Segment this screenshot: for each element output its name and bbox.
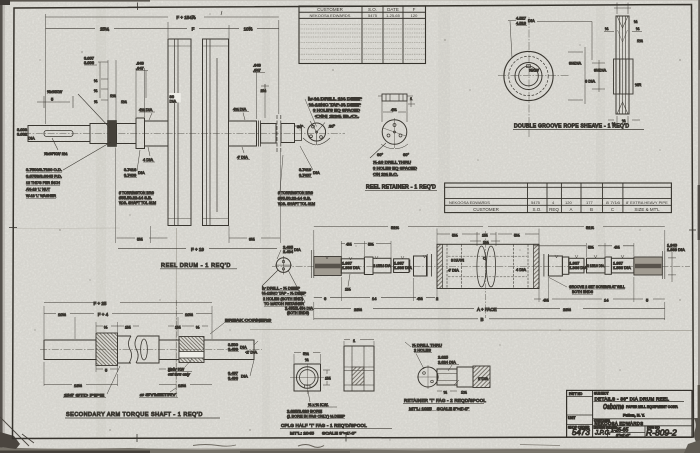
title block frame	[567, 390, 692, 437]
spool shaft centerline	[272, 266, 690, 268]
svg-text:1¼: 1¼	[483, 240, 489, 245]
svg-text:F: F	[413, 7, 416, 12]
svg-text:4⅜: 4⅜	[391, 107, 397, 112]
scan right edge	[698, 0, 700, 453]
svg-text:(BOTH ENDS): (BOTH ENDS)	[287, 310, 310, 315]
svg-text:3 HOLES EQ SPACED: 3 HOLES EQ SPACED	[373, 166, 417, 171]
svg-text:4½: 4½	[346, 241, 352, 246]
svg-text:DIA: DIA	[241, 374, 248, 379]
dim B row	[314, 318, 665, 320]
dim 1 1/2 right of square	[323, 370, 330, 385]
table column lines	[362, 6, 403, 64]
fold crease vertical	[175, 228, 177, 397]
dim 1 1/2 7/8 right	[168, 325, 208, 327]
svg-text:W-18 'L' WASHER: W-18 'L' WASHER	[26, 193, 56, 198]
svg-text:3.498: 3.498	[228, 347, 239, 352]
section dim 9 5/8 DIA	[568, 47, 585, 104]
svg-text:DIA: DIA	[170, 99, 177, 104]
svg-text:DIA: DIA	[313, 170, 320, 175]
customer order table	[299, 6, 426, 64]
left bearing block	[414, 256, 427, 276]
right collar at spool	[544, 254, 549, 277]
sheave front view outer circle	[504, 51, 553, 100]
table header and data row lines	[299, 12, 426, 18]
svg-text:1½: 1½	[482, 233, 488, 238]
svg-text:C: C	[483, 256, 486, 261]
groove step right	[257, 121, 261, 147]
dim 7/8 1 1/2 left	[96, 325, 139, 327]
svg-text:1˜DIA: 1˜DIA	[478, 376, 489, 381]
svg-text:13½: 13½	[74, 383, 82, 388]
svg-text:1.936 DIA: 1.936 DIA	[342, 265, 360, 270]
spec table right	[445, 183, 672, 213]
svg-text:3.496: 3.496	[228, 376, 239, 381]
border tick marks	[137, 3, 139, 11]
svg-text:4' DIA: 4' DIA	[237, 155, 248, 160]
svg-text:5⅜: 5⅜	[588, 244, 594, 249]
reel retainer circle	[382, 120, 407, 145]
svg-text:51⅜: 51⅜	[391, 225, 399, 230]
svg-text:1½: 1½	[175, 325, 181, 330]
bearing journal right section	[281, 124, 295, 143]
svg-text:⅝x⅜KW: ⅝x⅜KW	[47, 89, 62, 94]
symmetry centerline	[175, 300, 177, 397]
svg-text:1.939 DIA: 1.939 DIA	[667, 247, 685, 252]
shaft section right	[261, 124, 276, 144]
svg-text:DIA: DIA	[294, 247, 301, 252]
svg-text:8 7/16: 8 7/16	[606, 200, 621, 205]
svg-text:# TORRINGTON BRG: # TORRINGTON BRG	[278, 190, 313, 195]
sheave rim circle	[515, 63, 542, 90]
svg-text:1-25-65: 1-25-65	[386, 13, 401, 18]
svg-text:1½: 1½	[125, 325, 131, 330]
svg-text:2 HOLES: 2 HOLES	[414, 348, 431, 353]
right long section	[204, 340, 254, 360]
torque shaft left end	[44, 340, 96, 360]
svg-text:W.G. SHAFT TOL 31M: W.G. SHAFT TOL 31M	[278, 201, 315, 206]
corner scratch line	[0, 417, 29, 446]
torn right edge mark	[694, 418, 699, 442]
shaft right of drum	[229, 121, 257, 146]
pipe section with break	[118, 336, 132, 363]
dim 5 left	[96, 368, 118, 370]
svg-text:10⅝: 10⅝	[244, 27, 253, 32]
svg-text:R-809-2: R-809-2	[646, 428, 677, 438]
svg-text:23½: 23½	[563, 307, 571, 312]
right collar c	[605, 257, 611, 274]
svg-text:Osborne: Osborne	[603, 404, 624, 411]
neck	[391, 260, 394, 273]
left column rows	[567, 396, 593, 424]
svg-text:⅝ x ⅜ K.W.: ⅝ x ⅜ K.W.	[308, 402, 328, 407]
svg-text:½-13NC TAP-⅞ DEEP: ½-13NC TAP-⅞ DEEP	[309, 102, 361, 107]
svg-text:S.O.: S.O.	[532, 207, 541, 212]
svg-text:60°: 60°	[403, 152, 409, 157]
second dim row	[341, 243, 634, 245]
svg-text:5⅛: 5⅛	[514, 233, 520, 238]
dim 1 above side	[344, 339, 374, 341]
svg-text:A: A	[569, 207, 572, 212]
extension lines above shaft	[46, 14, 279, 124]
section 1.937 left2	[394, 259, 409, 273]
drum right wall	[203, 39, 229, 226]
title block main divider	[592, 390, 594, 437]
right threaded end	[634, 257, 662, 275]
reel retainer top section view	[382, 94, 407, 101]
svg-text:5473: 5473	[572, 428, 590, 437]
section top dims	[614, 3, 631, 15]
svg-text:3.7419: 3.7419	[299, 167, 312, 172]
shaft step 2	[90, 124, 109, 144]
left threaded end	[314, 257, 342, 276]
fold crease horizontal	[250, 330, 692, 331]
svg-text:Fulton, N. Y.: Fulton, N. Y.	[623, 413, 645, 417]
svg-text:3.002: 3.002	[17, 132, 28, 137]
coupling keyway mark	[305, 385, 311, 388]
svg-text:5475: 5475	[368, 13, 378, 18]
spacer	[409, 260, 411, 273]
svg-text:9½: 9½	[249, 237, 255, 242]
svg-text:5½: 5½	[137, 237, 143, 242]
svg-text:3"=1'-0": 3"=1'-0"	[616, 433, 631, 438]
sheave bore circle	[519, 66, 539, 86]
svg-text:DETAILS - 36" DIA DRUM REEL: DETAILS - 36" DIA DRUM REEL	[595, 396, 670, 401]
svg-text:120: 120	[411, 13, 418, 18]
collar left	[364, 257, 373, 275]
dim 5 keyway	[37, 96, 73, 108]
right section 2 15/16	[587, 258, 606, 273]
svg-text:F: F	[192, 27, 195, 32]
drum left wall	[168, 39, 191, 226]
svg-text:CUSTOMER: CUSTOMER	[317, 7, 343, 12]
svg-text:1¾: 1¾	[461, 390, 467, 395]
svg-text:DIA: DIA	[528, 18, 535, 23]
threaded section dark	[108, 121, 117, 147]
bore keyway	[527, 65, 531, 68]
spool top dim 5 1/8 row	[437, 233, 539, 235]
retainer dim lines	[382, 101, 407, 122]
spec table column lines	[528, 183, 623, 213]
section dim 9 1/2 DIA	[592, 60, 605, 92]
dim F+25	[44, 302, 212, 304]
svg-text:ⅳ-¼ DRILL 1⅛ DEEP: ⅳ-¼ DRILL 1⅛ DEEP	[308, 96, 362, 101]
svg-text:1.936 DIA: 1.936 DIA	[569, 265, 587, 270]
svg-text:1½: 1½	[325, 376, 331, 381]
coupling bore circle	[297, 367, 319, 389]
svg-text:30°: 30°	[329, 124, 335, 129]
scan top-left corner blob	[0, 0, 10, 5]
svg-text:SIZE & MT'L: SIZE & MT'L	[634, 207, 660, 212]
label 36 DIA in drum	[169, 93, 181, 103]
torque shaft centerline	[40, 349, 262, 351]
svg-text:60°: 60°	[377, 152, 383, 157]
svg-text:177: 177	[586, 200, 593, 205]
sheave section rim	[616, 16, 629, 114]
svg-text:⌀ SYMETRY: ⌀ SYMETRY	[140, 392, 177, 397]
shaft end view circle	[276, 258, 291, 273]
left collar at spool	[427, 254, 431, 277]
drum bottom dim 5 1/2 and 9 1/2	[116, 148, 281, 244]
svg-text:REEL RETAINER - 1 REQ'D: REEL RETAINER - 1 REQ'D	[366, 185, 436, 191]
coupling side view	[344, 346, 374, 391]
svg-text:CUSTOMER: CUSTOMER	[473, 207, 499, 212]
spool wall hatch right	[514, 244, 529, 288]
spool bore dashed lines	[448, 256, 527, 277]
svg-text:UNIT: UNIT	[568, 416, 575, 420]
svg-text:8' EXTRA HEAVY PIPE: 8' EXTRA HEAVY PIPE	[626, 200, 668, 205]
faint empty row lines	[299, 24, 426, 59]
svg-text:1¾: 1¾	[637, 38, 643, 43]
svg-text:5¾: 5¾	[303, 351, 309, 356]
retainer side view	[437, 369, 457, 385]
svg-text:B: B	[590, 207, 593, 212]
keyed section	[179, 337, 204, 363]
svg-text:30°: 30°	[297, 124, 303, 129]
svg-text:5475: 5475	[531, 200, 541, 205]
finish marks	[326, 255, 625, 260]
sheave section hub	[614, 59, 634, 94]
svg-text:2 15/16 DIA: 2 15/16 DIA	[374, 263, 391, 268]
mid section	[159, 340, 179, 360]
svg-text:.647: .647	[136, 66, 145, 71]
svg-text:(1 BORE IN FAG ONLY) ¼ DEEP: (1 BORE IN FAG ONLY) ¼ DEEP	[287, 414, 345, 419]
svg-text:W.G. SHAFT TOL 31M: W.G. SHAFT TOL 31M	[119, 200, 156, 205]
dim F+154 7/8	[46, 11, 279, 17]
svg-text:36 DIA PIPE: 36 DIA PIPE	[451, 258, 464, 263]
svg-text:F + 154⅞: F + 154⅞	[176, 15, 195, 20]
groove V marks	[617, 16, 628, 114]
svg-text:DOUBLE GROOVE ROPE SHEAVE - 1: DOUBLE GROOVE ROPE SHEAVE - 1 REQ'D	[514, 124, 629, 130]
dim 5 3/4 above	[294, 352, 321, 354]
reel spool body	[437, 244, 539, 288]
svg-text:⅝KW: ⅝KW	[529, 68, 539, 73]
svg-text:3 HOLE'S EQ SPACED: 3 HOLE'S EQ SPACED	[313, 108, 360, 113]
svg-text:NEKOOSA EDWARDS: NEKOOSA EDWARDS	[449, 200, 490, 205]
faint vertical streaks	[96, 8, 106, 438]
customer row	[593, 418, 692, 420]
dims below side view	[437, 390, 457, 392]
svg-text:REEL DRUM - 1 REQ'D: REEL DRUM - 1 REQ'D	[161, 263, 231, 269]
svg-text:⅞x⅜″KW 1¼: ⅞x⅜″KW 1¼	[44, 151, 68, 156]
bottom dim row 1	[314, 298, 665, 299]
dim 10 1/2, F+4, 10 1/2	[44, 313, 212, 315]
svg-text:REQ: REQ	[549, 207, 559, 212]
svg-text:#95.50.22-14 S.B.: #95.50.22-14 S.B.	[278, 196, 311, 201]
svg-text:3.7407: 3.7407	[299, 173, 312, 178]
right neck	[584, 260, 587, 273]
svg-text:PATT NO: PATT NO	[569, 392, 583, 396]
spool center axis vertical	[485, 231, 487, 318]
svg-text:3.7416: 3.7416	[124, 167, 137, 172]
svg-text:CPLG HALF 'T' FAG - 1 REQ'D/SP: CPLG HALF 'T' FAG - 1 REQ'D/SPOOL	[281, 423, 367, 428]
dim 13 1/2 left	[44, 384, 118, 386]
svg-text:14: 14	[372, 296, 377, 301]
svg-text:1.936 DIA: 1.936 DIA	[394, 265, 412, 270]
svg-text:3.7500/3.7180 O.D.: 3.7500/3.7180 O.D.	[26, 167, 62, 172]
svg-text:4¾ DIA: 4¾ DIA	[139, 107, 153, 112]
svg-text:4½: 4½	[417, 296, 423, 301]
bearing journal left	[136, 118, 145, 149]
dim 23 1/2 A+FACE row	[314, 307, 665, 309]
svg-text:AN-18 'L' NUT: AN-18 'L' NUT	[26, 187, 51, 192]
svg-text:4 DIA: 4 DIA	[516, 267, 526, 272]
svg-text:cut thru only: cut thru only	[168, 372, 191, 377]
paper speckle noise	[81, 51, 82, 52]
svg-text:6 DIA: 6 DIA	[585, 79, 595, 84]
scan bottom dark band	[0, 449, 700, 453]
section 2 15/16	[373, 258, 391, 273]
svg-text:¾R: ¾R	[635, 82, 641, 87]
svg-text:B: B	[481, 317, 484, 322]
right section 1.937 b	[611, 258, 634, 273]
svg-text:BOTH ENDS: BOTH ENDS	[572, 289, 593, 294]
retainer fag circle	[418, 367, 438, 387]
shaft step 3	[117, 124, 137, 144]
svg-text:120: 120	[565, 200, 572, 205]
svg-text:PAPER MILL EQUIPMENT CORP.: PAPER MILL EQUIPMENT CORP.	[626, 404, 678, 409]
left pipe threaded section	[96, 333, 118, 366]
svg-text:10½: 10½	[185, 312, 193, 317]
sheave pitch circle dashed	[509, 56, 548, 95]
svg-text:⅞-16 DRILL THRU: ⅞-16 DRILL THRU	[373, 160, 411, 165]
svg-text:12 THD'S PER INCH: 12 THD'S PER INCH	[26, 180, 60, 185]
svg-text:9⅛DIA: 9⅛DIA	[569, 61, 582, 66]
retainer angle leaders	[381, 144, 408, 149]
break gap piece 2	[137, 336, 160, 363]
svg-text:F + 19: F + 19	[191, 247, 204, 252]
svg-text:S.O.: S.O.	[368, 7, 377, 12]
svg-text:DIA: DIA	[138, 170, 145, 175]
drum hub marks	[168, 46, 229, 219]
dim 13 1/2 right	[159, 384, 212, 386]
svg-text:DIA: DIA	[28, 136, 35, 141]
svg-text:A + FACE: A + FACE	[477, 307, 497, 312]
svg-text:2.434: 2.434	[283, 249, 294, 254]
scan top edge	[0, 0, 150, 2]
spool wall hatch left	[437, 244, 443, 288]
bottom row cells	[593, 426, 692, 438]
svg-text:ON 2¾ B.C.: ON 2¾ B.C.	[373, 172, 398, 177]
svg-text:10½: 10½	[58, 312, 66, 317]
svg-text:1⅛: 1⅛	[345, 287, 351, 292]
svg-text:4.518: 4.518	[516, 21, 527, 26]
section 1.937 left	[341, 259, 364, 273]
stray pencil scribbles	[193, 445, 236, 447]
svg-text:5⅛: 5⅛	[452, 233, 458, 238]
main shaft centerline	[24, 133, 345, 135]
shaft step 4	[145, 121, 169, 146]
leader from circle to note	[262, 270, 305, 305]
dim 25 1/4, F, 10 5/8	[46, 27, 279, 29]
svg-text:1¾: 1¾	[110, 93, 116, 98]
svg-text:·2' DIA: ·2' DIA	[245, 350, 257, 355]
scan bottom-left corner blob	[0, 432, 20, 449]
sheave crosshair	[528, 17, 530, 137]
svg-text:NEKOOSA EDWARDS: NEKOOSA EDWARDS	[310, 13, 351, 18]
angle leaders 30deg	[300, 124, 334, 128]
svg-text:1.936 DIA: 1.936 DIA	[613, 265, 631, 270]
dim 51 3/8 and 51 5/8	[314, 226, 665, 228]
end flange bolt circle	[308, 123, 326, 141]
keyway strip	[179, 352, 204, 359]
keyway in shaft end	[44, 131, 73, 137]
scan left dark edge	[0, 0, 3, 453]
svg-text:3.006: 3.006	[84, 60, 95, 65]
snap ring grooves	[277, 115, 281, 152]
right section 1.937	[569, 258, 584, 273]
dim 5 right	[159, 368, 179, 370]
svg-text:51⅝: 51⅝	[586, 225, 594, 230]
right collar b	[562, 257, 568, 274]
svg-text:.647: .647	[253, 68, 262, 73]
svg-text:DATE: DATE	[387, 7, 399, 12]
svg-text:SECONDARY ARM TORQUE SHAFT - 1: SECONDARY ARM TORQUE SHAFT - 1 REQ'D	[66, 412, 203, 418]
svg-text:4¾ DIA: 4¾ DIA	[233, 107, 247, 112]
right bearing block	[548, 256, 562, 276]
spool core break ellipses	[477, 246, 486, 287]
svg-text:1¼: 1¼	[121, 99, 127, 104]
svg-text:3.6759/3.6645 P.D.: 3.6759/3.6645 P.D.	[26, 174, 62, 179]
svg-text:23½: 23½	[354, 307, 362, 312]
svg-text:4 DIA: 4 DIA	[143, 157, 153, 162]
svg-text:MT'L: 1045 SCALE 3"=1'-0": MT'L: 1045 SCALE 3"=1'-0"	[290, 431, 357, 436]
svg-text:ON 2¾ B.C.: ON 2¾ B.C.	[315, 114, 359, 119]
coupling half front square	[294, 364, 321, 391]
dim F+19	[118, 247, 277, 249]
svg-text:5⅜: 5⅜	[368, 241, 374, 246]
svg-text:3.7409: 3.7409	[124, 173, 137, 178]
svg-text:4½: 4½	[614, 244, 620, 249]
svg-text:13½: 13½	[178, 383, 186, 388]
small end step	[295, 126, 302, 141]
shaft end section	[28, 126, 90, 142]
